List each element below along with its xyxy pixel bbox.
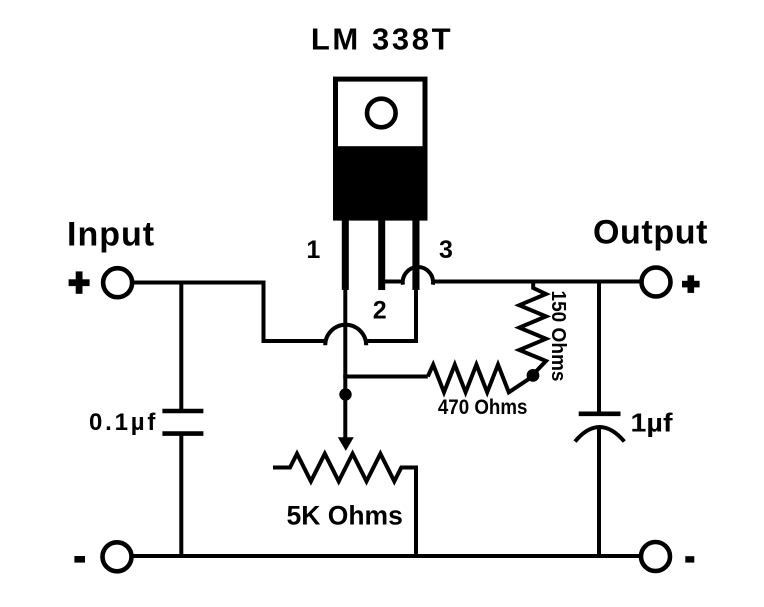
svg-text:150 Ohms: 150 Ohms bbox=[547, 291, 570, 382]
svg-text:1: 1 bbox=[306, 236, 320, 264]
svg-text:2: 2 bbox=[373, 297, 387, 325]
svg-text:0.1µf: 0.1µf bbox=[89, 409, 158, 436]
svg-text:LM 338T: LM 338T bbox=[311, 22, 453, 57]
svg-text:1µf: 1µf bbox=[631, 408, 673, 438]
svg-text:Input: Input bbox=[67, 216, 155, 254]
svg-text:Output: Output bbox=[593, 214, 708, 252]
svg-text:5K Ohms: 5K Ohms bbox=[287, 501, 403, 531]
svg-text:470 Ohms: 470 Ohms bbox=[438, 396, 528, 419]
svg-text:3: 3 bbox=[439, 236, 453, 264]
